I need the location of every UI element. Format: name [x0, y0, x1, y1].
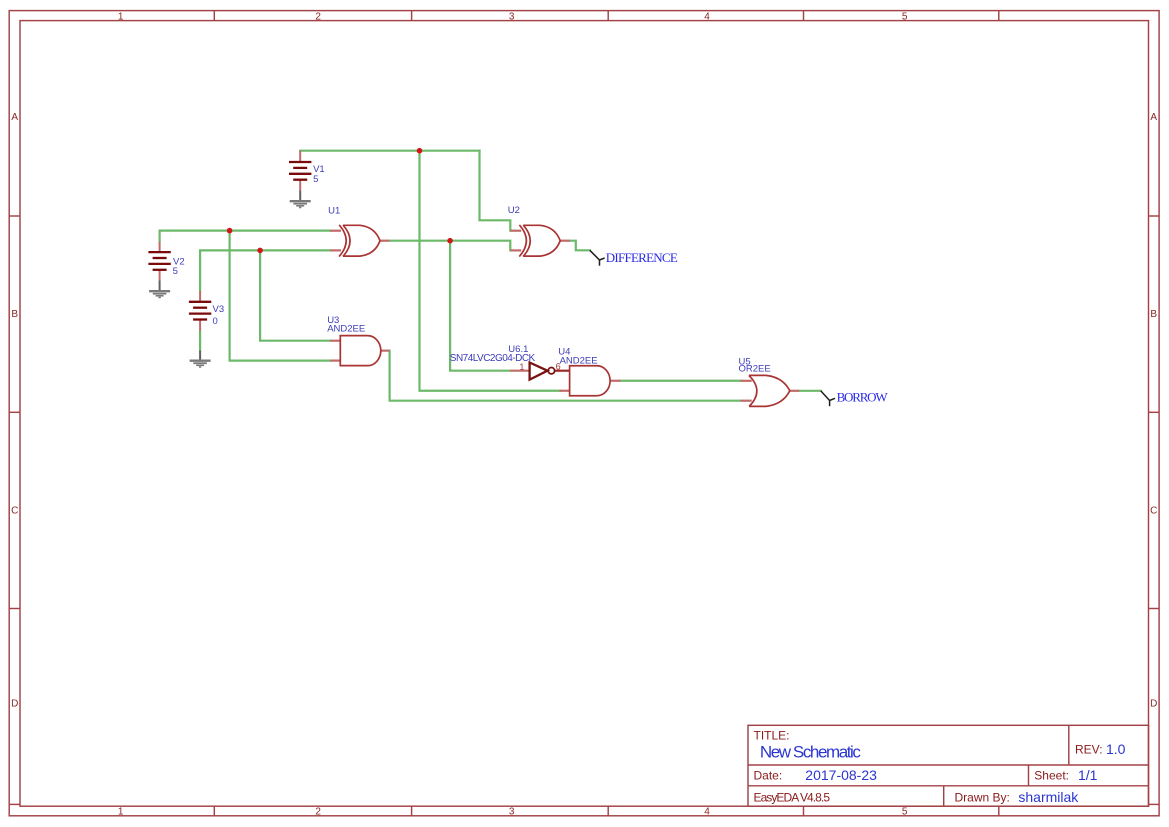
svg-text:Date:: Date:	[754, 769, 783, 783]
svg-text:U1: U1	[328, 206, 340, 217]
svg-text:C: C	[1150, 505, 1157, 516]
svg-text:2: 2	[315, 806, 321, 817]
svg-text:EasyEDA V4.8.5: EasyEDA V4.8.5	[754, 791, 831, 805]
svg-text:A: A	[1150, 112, 1157, 123]
svg-text:0: 0	[213, 316, 218, 327]
svg-text:New Schematic: New Schematic	[760, 742, 862, 761]
svg-text:AND2EE: AND2EE	[327, 324, 365, 335]
svg-text:D: D	[1150, 699, 1157, 710]
svg-text:1/1: 1/1	[1078, 767, 1098, 783]
svg-text:B: B	[1150, 309, 1157, 320]
svg-text:4: 4	[704, 12, 710, 23]
svg-text:6: 6	[556, 362, 561, 372]
svg-text:DIFFERENCE: DIFFERENCE	[606, 250, 678, 265]
svg-text:BORROW: BORROW	[837, 390, 889, 405]
svg-text:A: A	[11, 112, 18, 123]
svg-text:3: 3	[509, 806, 515, 817]
svg-text:D: D	[11, 699, 18, 710]
svg-text:1: 1	[519, 362, 524, 372]
svg-text:3: 3	[509, 12, 515, 23]
svg-text:5: 5	[313, 174, 318, 185]
svg-text:2017-08-23: 2017-08-23	[805, 767, 877, 783]
svg-text:sharmilak: sharmilak	[1018, 789, 1079, 805]
svg-text:4: 4	[704, 806, 710, 817]
svg-text:U2: U2	[508, 205, 520, 216]
svg-text:Sheet:: Sheet:	[1034, 769, 1069, 783]
svg-text:AND2EE: AND2EE	[560, 355, 598, 366]
svg-text:Drawn By:: Drawn By:	[955, 791, 1010, 805]
svg-text:OR2EE: OR2EE	[739, 364, 771, 375]
svg-text:5: 5	[173, 266, 178, 277]
svg-text:1: 1	[118, 12, 124, 23]
svg-text:TITLE:: TITLE:	[754, 729, 790, 743]
svg-text:5: 5	[902, 806, 908, 817]
svg-text:B: B	[11, 309, 18, 320]
svg-text:2: 2	[315, 12, 321, 23]
svg-text:1.0: 1.0	[1106, 741, 1126, 757]
svg-text:C: C	[11, 505, 18, 516]
svg-text:V3: V3	[213, 304, 225, 315]
svg-text:5: 5	[902, 12, 908, 23]
svg-text:REV:: REV:	[1075, 743, 1103, 757]
svg-text:1: 1	[118, 806, 124, 817]
